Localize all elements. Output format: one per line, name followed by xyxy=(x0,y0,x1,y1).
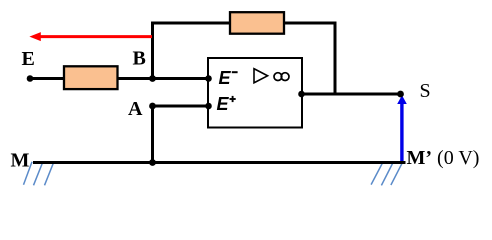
svg-text:E: E xyxy=(22,48,35,70)
resistor R1 xyxy=(64,66,118,89)
node A dot xyxy=(149,103,156,110)
svg-text:M’ (0 V): M’ (0 V) xyxy=(407,147,480,169)
node S dot xyxy=(397,91,404,98)
U1 pin E+ dot xyxy=(205,103,212,110)
resistor R2 (feedback) xyxy=(230,12,284,34)
node E dot xyxy=(27,75,34,82)
wire A to E+ pin xyxy=(153,105,209,108)
output wire U1 to S xyxy=(302,93,401,96)
svg-text:E: E xyxy=(217,94,230,114)
blue output voltage arrow xyxy=(397,95,407,162)
op-amp U1 body xyxy=(208,58,302,128)
svg-text:S: S xyxy=(420,80,431,102)
wire A down to ground rail xyxy=(151,106,154,163)
U1 pin E- dot xyxy=(205,75,212,82)
U1 label E+ xyxy=(217,94,236,114)
node B dot xyxy=(149,75,156,82)
wire E to B (through R1) xyxy=(30,77,153,80)
U1 gain symbol triangle xyxy=(254,69,268,83)
wire B up to feedback rail xyxy=(151,22,154,79)
ground junction dot under A xyxy=(149,159,156,166)
ground hatching at M xyxy=(24,162,55,186)
red current arrow xyxy=(29,32,152,41)
svg-text:A: A xyxy=(128,98,143,120)
svg-text:E: E xyxy=(219,68,232,88)
svg-text:B: B xyxy=(133,48,146,70)
svg-text:M: M xyxy=(11,150,30,172)
ground rail M to M' xyxy=(33,161,406,164)
U1 label E- xyxy=(219,68,238,88)
feedback right vertical wire xyxy=(334,22,337,96)
U1 output pin dot xyxy=(298,91,305,98)
ground hatching at M' xyxy=(371,162,403,186)
feedback top rail (through R2) xyxy=(151,22,336,25)
wire B to E- pin xyxy=(153,77,209,80)
U1 gain symbol infinity xyxy=(274,73,289,81)
